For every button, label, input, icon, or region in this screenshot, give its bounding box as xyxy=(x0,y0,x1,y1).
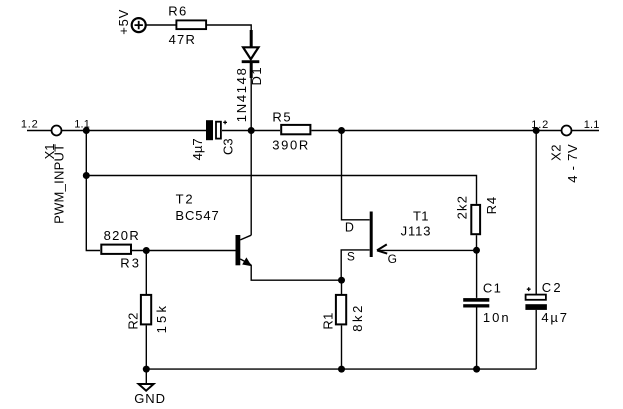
wire: main top rail y=130.5 xyxy=(27,130,599,132)
svg-text:J113: J113 xyxy=(401,224,432,239)
node: junction gate/R4/C1 xyxy=(473,247,480,254)
svg-text:R6: R6 xyxy=(168,4,187,19)
svg-text:8k2: 8k2 xyxy=(350,303,365,332)
svg-text:4µ7: 4µ7 xyxy=(190,138,205,160)
svg-text:R4: R4 xyxy=(484,196,499,214)
resistor R6 xyxy=(176,20,206,29)
svg-text:820R: 820R xyxy=(104,228,140,243)
wire: emitter down and right to R1 node xyxy=(251,265,341,280)
plus mark C2 xyxy=(527,287,531,291)
node: junction base/R2 xyxy=(143,247,150,254)
capacitor C3 polarized xyxy=(206,120,213,140)
svg-text:G: G xyxy=(388,252,397,266)
resistor R2 xyxy=(145,251,147,295)
wire: diode down through rails to T2 collector xyxy=(250,78,252,235)
diode D1 1N4148 xyxy=(242,30,260,78)
svg-text:PWM_INPUT: PWM_INPUT xyxy=(52,144,67,224)
wire: +5V to R6 xyxy=(146,24,175,26)
wire: drain from rail xyxy=(342,131,370,220)
svg-text:C2: C2 xyxy=(542,280,563,295)
capacitor C2 polarized xyxy=(535,131,537,295)
transistor T1 J113 channel bar xyxy=(370,212,373,258)
svg-text:S: S xyxy=(347,249,355,263)
transistor T2 BC547 xyxy=(236,235,241,265)
svg-text:4 - 7V: 4 - 7V xyxy=(565,144,580,183)
connector X1 pad circle xyxy=(52,126,62,136)
node: junction rail/drain line xyxy=(338,127,345,134)
svg-text:GND: GND xyxy=(134,391,166,406)
svg-text:R2: R2 xyxy=(126,312,141,329)
node: junction rail/C2 xyxy=(533,127,540,134)
svg-text:1.1: 1.1 xyxy=(584,119,600,131)
node: junction emitter/R1/source xyxy=(338,277,345,284)
svg-text:D: D xyxy=(345,221,354,235)
node: junction GND xyxy=(143,366,150,373)
wire: collector diagonal xyxy=(240,235,251,240)
emitter arrow xyxy=(243,258,251,265)
svg-text:C1: C1 xyxy=(483,280,502,295)
wire: base from R3 junction xyxy=(132,250,236,252)
node: junction C1/bottom rail xyxy=(473,366,480,373)
resistor R5 xyxy=(281,125,310,134)
wire: gate xyxy=(377,249,477,251)
svg-text:15k: 15k xyxy=(154,303,169,334)
svg-text:BC547: BC547 xyxy=(175,208,219,223)
ground xyxy=(145,369,147,383)
capacitor C1 xyxy=(476,250,478,298)
svg-text:1N4148: 1N4148 xyxy=(234,66,249,122)
svg-text:10n: 10n xyxy=(483,310,511,325)
svg-text:T1: T1 xyxy=(413,209,429,224)
svg-text:+5V: +5V xyxy=(116,9,131,35)
resistor R1 xyxy=(341,280,343,294)
node: junction R1/bottom rail xyxy=(338,366,345,373)
svg-text:2k2: 2k2 xyxy=(455,195,470,220)
wire: source xyxy=(341,250,369,280)
wire: bottom rail y=368.8 xyxy=(146,368,536,370)
svg-text:R1: R1 xyxy=(321,312,336,329)
resistor R3 xyxy=(101,245,131,254)
resistor R4 xyxy=(471,205,480,234)
svg-text:R5: R5 xyxy=(272,109,292,124)
svg-text:47R: 47R xyxy=(169,32,196,47)
wire: second rail y=175.5 to R4 xyxy=(86,176,476,204)
connector X2 pad circle xyxy=(562,126,572,136)
svg-text:1.1: 1.1 xyxy=(74,118,90,130)
svg-text:1.2: 1.2 xyxy=(531,119,549,131)
plus mark C3 xyxy=(223,121,227,125)
supply +5V symbol xyxy=(132,18,146,32)
node: junction second rail left xyxy=(83,172,90,179)
node: junction diode/rail xyxy=(248,127,255,134)
svg-text:X2: X2 xyxy=(549,144,564,161)
svg-text:390R: 390R xyxy=(272,138,310,153)
wire: emitter diagonal xyxy=(240,259,251,265)
svg-text:R3: R3 xyxy=(120,255,141,270)
gate arrow xyxy=(377,244,387,253)
wire: X1 vertical drop x=86.3 and run to R3 xyxy=(86,131,100,251)
node: junction X1 rail xyxy=(83,127,90,134)
svg-text:1.2: 1.2 xyxy=(21,118,39,130)
svg-text:4µ7: 4µ7 xyxy=(541,310,568,325)
svg-text:C3: C3 xyxy=(220,138,235,155)
svg-text:T2: T2 xyxy=(176,192,195,207)
wire: R6 to diode top xyxy=(207,25,251,31)
